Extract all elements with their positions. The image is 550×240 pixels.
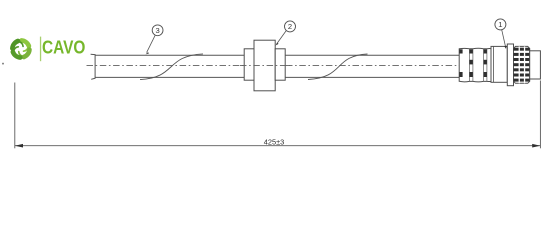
centerline over center fitting: [240, 65, 290, 67]
callout circle 2: [285, 21, 296, 32]
center fitting body block: [254, 40, 275, 91]
svg-text:2: 2: [288, 22, 292, 31]
svg-text:1: 1: [498, 20, 502, 29]
svg-text:3: 3: [155, 26, 159, 35]
centerline (dash-dot axis): [87, 65, 540, 67]
crimp divider lines 2: [484, 49, 487, 82]
dimension arrowhead right: [532, 144, 540, 148]
dimension line: [15, 145, 541, 147]
hose bottom wall line (left section): [95, 76, 244, 78]
crimp divider lines 1: [469, 49, 473, 82]
end fitting flange: [507, 44, 513, 86]
center fitting right collar: [275, 49, 285, 80]
callout 1 leader line: [502, 30, 507, 49]
callout 3 leader line: [146, 35, 156, 54]
hose twist S-curve left: [140, 54, 203, 80]
end fitting crimp sleeve outline: [459, 48, 491, 82]
dimension extension line right: [539, 81, 541, 149]
crimp dent marks: [459, 49, 487, 77]
end fitting end cap: [530, 51, 541, 79]
hose left end face: [91, 54, 96, 79]
center fitting left collar: [244, 49, 254, 80]
dimension text 425±3: [264, 137, 285, 146]
stray dot left edge: [2, 63, 4, 65]
hose bottom wall line (right section): [285, 76, 459, 78]
callout circle 3: [152, 25, 163, 36]
CAVO logo text: [42, 37, 85, 58]
hose top wall line (right section): [285, 54, 459, 56]
CAVO logo icon (green swirl): [12, 40, 29, 57]
hose top wall line (left section): [95, 54, 244, 56]
callout circle 1: [495, 19, 506, 30]
end fitting body cylinder: [491, 46, 507, 82]
end fitting threaded knurl section: [514, 46, 530, 84]
svg-text:425±3: 425±3: [264, 137, 285, 146]
dimension extension line left: [14, 83, 16, 149]
svg-text:CAVO: CAVO: [42, 37, 85, 58]
callout 2 leader line: [275, 31, 286, 46]
dimension arrowhead left: [15, 144, 23, 148]
hose twist S-curve right: [308, 54, 368, 80]
logo separator bar: [40, 37, 41, 62]
